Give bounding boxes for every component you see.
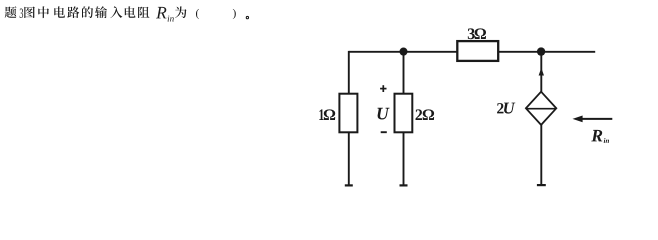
port subscript n: [606, 140, 609, 143]
port label R: [591, 130, 602, 142]
text glyph 阻: [138, 7, 149, 18]
wire middle branch lower: [403, 132, 405, 186]
input port R_in arrow shaft: [581, 118, 613, 120]
resistor 3ohm omega: [475, 28, 486, 39]
text glyph 图: [24, 7, 35, 19]
dependent source 2U diamond: [526, 92, 556, 125]
wire end tick middle: [400, 184, 408, 186]
node junction dot right: [537, 47, 545, 55]
resistor 1ohm digit: [319, 109, 323, 120]
text glyph 为: [175, 6, 187, 18]
wire left branch upper: [348, 51, 350, 95]
wire right branch upper: [540, 52, 542, 93]
dependent source diamond crossbar: [527, 108, 556, 110]
resistor 2ohm digit: [416, 109, 423, 120]
open paren: [196, 9, 199, 19]
voltage U minus sign: [381, 131, 387, 133]
close paren: [233, 9, 236, 19]
resistor 3ohm body: [457, 41, 498, 61]
wire right branch lower: [540, 124, 542, 185]
text glyph 中: [38, 6, 49, 18]
source 2U digit: [497, 103, 503, 113]
text glyph 电: [54, 6, 65, 17]
text glyph 路: [67, 6, 79, 18]
label R in heading: [156, 7, 167, 19]
text glyph 题: [5, 6, 17, 18]
text glyph 入: [110, 6, 122, 18]
input port R_in arrow head: [573, 116, 583, 123]
port subscript i: [604, 138, 606, 143]
text glyph 输: [95, 6, 107, 18]
text glyph 3: [20, 9, 23, 19]
resistor 2ohm omega: [423, 109, 434, 120]
wire end tick right: [537, 184, 546, 186]
text glyph 的: [82, 6, 93, 18]
text glyph 电: [125, 6, 136, 17]
resistor 1ohm omega: [324, 109, 335, 120]
wire middle branch upper: [403, 52, 405, 95]
resistor 1ohm body: [339, 94, 357, 133]
wire top rail: [349, 51, 595, 53]
subscript n in heading: [170, 17, 174, 21]
resistor 3ohm digit: [468, 28, 475, 39]
voltage U label glyph: [378, 108, 390, 120]
ideographic full stop: [246, 16, 248, 18]
node junction dot left: [399, 48, 407, 56]
subscript i in heading: [168, 16, 170, 22]
voltage U plus sign: [380, 85, 386, 92]
dependent source current arrow head: [539, 68, 544, 76]
wire left branch lower: [348, 132, 350, 186]
wire end tick left: [345, 184, 353, 186]
resistor 2ohm body: [395, 94, 413, 133]
source 2U letter U: [504, 103, 515, 114]
